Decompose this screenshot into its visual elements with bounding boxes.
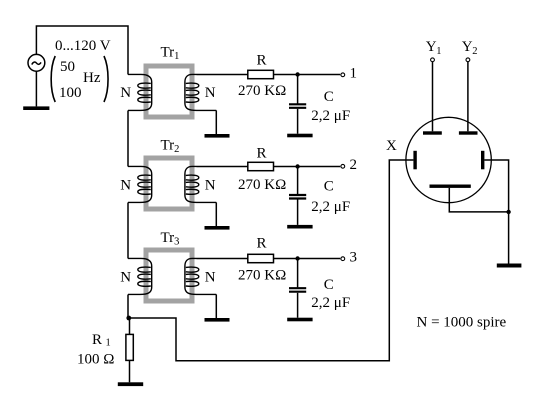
Tr2 secondary coil <box>185 166 216 202</box>
terminal 3 <box>341 257 345 261</box>
ground (Tr2) <box>205 226 230 230</box>
ground (C row 3) <box>287 318 312 322</box>
Tr3 core frame <box>146 250 192 301</box>
Tr1 secondary coil <box>185 74 216 110</box>
wire Tr2 secondary bottom to ground <box>215 202 217 226</box>
svg-text:270 KΩ: 270 KΩ <box>238 268 286 284</box>
Tr1 core frame <box>146 66 192 117</box>
X plate right <box>481 151 484 170</box>
wire cathode plate to junction <box>449 188 508 212</box>
wire R to terminal 3 <box>274 258 341 260</box>
ground (CRT) <box>497 264 522 268</box>
X plate left <box>413 151 416 170</box>
wire Tr3 secondary bottom to ground <box>215 294 217 318</box>
svg-text:N: N <box>120 178 131 194</box>
capacitor C (row 2) <box>289 195 306 199</box>
row 1 output network <box>197 53 358 138</box>
svg-text:Hz: Hz <box>83 70 101 86</box>
wire node A to R1 <box>129 318 131 334</box>
transformer Tr1 <box>120 45 229 138</box>
wire Y1 terminal to plate <box>432 62 434 131</box>
Tr1 primary coil <box>128 74 152 110</box>
wire capacitor to ground <box>297 200 299 225</box>
wire Tr1 secondary to R <box>197 74 248 76</box>
Tr2 primary coil <box>128 166 152 202</box>
svg-text:R: R <box>257 53 267 69</box>
resistor R1 <box>126 334 133 360</box>
svg-text:1: 1 <box>436 46 441 57</box>
ground (Tr1) <box>205 134 230 138</box>
wire R1 to ground <box>129 360 131 382</box>
terminal 2 <box>341 164 345 168</box>
wire node A to X plate (long route) <box>129 160 414 361</box>
svg-text:100: 100 <box>59 85 82 101</box>
svg-text:Y: Y <box>426 39 437 55</box>
wire capacitor to ground <box>297 293 299 318</box>
wire bus Tr2 to Tr3 <box>127 203 129 259</box>
cathode plate bottom <box>430 185 471 188</box>
wire R to terminal 2 <box>274 166 341 168</box>
wire junction to ground <box>508 212 510 264</box>
svg-text:C: C <box>324 179 334 195</box>
resistor R (row 2) <box>248 162 274 170</box>
ground (Tr3) <box>205 318 230 322</box>
svg-text:2,2 μF: 2,2 μF <box>311 199 350 215</box>
ground (R1) <box>118 382 143 386</box>
wire junction to capacitor <box>297 259 299 288</box>
svg-text:N: N <box>205 270 216 286</box>
transformer Tr3 <box>120 230 229 322</box>
row 2 output network <box>197 146 358 229</box>
wire bus Tr3 to node A <box>127 295 129 319</box>
terminal Y2 <box>466 58 470 62</box>
node A junction (bottom bus) <box>126 316 131 321</box>
svg-text:100 Ω: 100 Ω <box>77 352 114 368</box>
svg-text:1: 1 <box>106 338 111 349</box>
svg-text:C: C <box>324 277 334 293</box>
resistor R (row 3) <box>248 254 274 262</box>
ground (C row 1) <box>287 134 312 138</box>
svg-text:1: 1 <box>350 66 358 82</box>
svg-text:Y: Y <box>462 39 473 55</box>
wire from source bottom to ground <box>35 71 37 106</box>
wire bus Tr1 to Tr2 <box>127 111 129 167</box>
svg-text:N: N <box>205 178 216 194</box>
svg-text:3: 3 <box>350 250 358 266</box>
AC source V1 <box>28 54 45 71</box>
node junction (row 1) <box>295 72 299 76</box>
svg-text:N: N <box>120 270 131 286</box>
svg-text:N: N <box>120 85 131 101</box>
terminal 1 <box>341 73 345 77</box>
wire junction to capacitor <box>297 75 299 104</box>
svg-text:0...120 V: 0...120 V <box>55 38 111 54</box>
wire junction to capacitor <box>297 167 299 195</box>
wire R to terminal 1 <box>274 74 341 76</box>
wire Tr2 secondary to R <box>197 166 248 168</box>
wire capacitor to ground <box>297 109 299 134</box>
svg-text:270 KΩ: 270 KΩ <box>238 177 286 193</box>
wire Tr3 secondary to R <box>197 258 248 260</box>
Tr2 core frame <box>146 158 192 209</box>
svg-text:270 KΩ: 270 KΩ <box>238 83 286 99</box>
parenthesis left <box>51 56 55 102</box>
transformer Tr2 <box>120 138 229 230</box>
svg-text:C: C <box>324 89 334 105</box>
terminal Y1 <box>431 58 435 62</box>
svg-text:R: R <box>257 236 267 252</box>
svg-text:X: X <box>386 138 397 154</box>
Tr3 secondary coil <box>185 258 216 294</box>
node junction (CRT) <box>506 210 510 214</box>
node junction (row 2) <box>295 164 299 168</box>
svg-text:2: 2 <box>472 46 477 57</box>
wire X plate right to junction <box>484 160 508 212</box>
capacitor C (row 1) <box>289 104 306 108</box>
Y plate 2 <box>459 131 478 134</box>
svg-text:50: 50 <box>60 59 75 75</box>
parenthesis right <box>104 56 108 102</box>
resistor R (row 1) <box>248 70 274 78</box>
svg-text:2,2 μF: 2,2 μF <box>311 295 350 311</box>
svg-text:N = 1000 spire: N = 1000 spire <box>417 315 507 331</box>
svg-text:2,2 μF: 2,2 μF <box>311 108 350 124</box>
svg-text:R: R <box>92 332 102 348</box>
row 3 output network <box>197 236 358 322</box>
svg-text:R: R <box>257 146 267 162</box>
ground (C row 2) <box>287 225 312 229</box>
Y plate 1 <box>423 131 442 134</box>
svg-text:N: N <box>205 85 216 101</box>
capacitor C (row 3) <box>289 288 306 292</box>
ground (source) <box>23 106 49 110</box>
wire Tr1 secondary bottom to ground <box>215 110 217 134</box>
CRT envelope <box>406 117 491 202</box>
wire from source top to bus <box>36 26 128 75</box>
svg-text:2: 2 <box>350 157 358 173</box>
Tr3 primary coil <box>128 258 152 294</box>
node junction (row 3) <box>295 256 299 260</box>
wire Y2 terminal to plate <box>467 62 469 131</box>
